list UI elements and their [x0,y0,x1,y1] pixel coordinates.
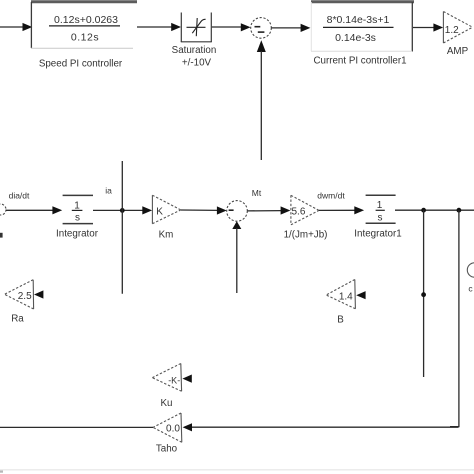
gain AMP 1.2 [443,12,472,44]
wire Taho output to left edge [0,426,153,428]
svg-text:0.12s: 0.12s [71,32,99,44]
wire input to Speed PI controller [0,26,23,28]
svg-text:dwm/dt: dwm/dt [317,191,345,201]
node junction wm 1 [421,208,426,213]
scope (partial, right edge) [467,263,474,294]
svg-text:Taho: Taho [156,444,178,455]
svg-text:s: s [378,212,383,223]
block Integrator1 1/s [366,195,396,223]
sum junction S1 [251,18,272,39]
wire vertical feedback to Taho [450,210,459,426]
wire Km to sum S2 [181,209,218,211]
sum junction S2 [227,201,248,222]
gain Ku -K- [152,364,181,392]
svg-text:Saturation: Saturation [172,45,217,56]
figure caption rule (faint) [0,469,474,471]
gain 1/(Jm+Jb) 5.6 [291,195,319,225]
svg-text:5.6: 5.6 [292,207,306,218]
gain Ra 2.5 [5,280,34,309]
wire arrow into Ku [182,375,191,383]
sum junction (partial, left edge) [0,204,6,215]
svg-text:1.2: 1.2 [445,25,459,36]
wire Integrator to Km [93,209,144,211]
svg-text:8*0.14e-3s+1: 8*0.14e-3s+1 [327,14,390,26]
gain Taho 0.0 [153,413,182,442]
gain B 1.4 [326,280,355,309]
wire S1 to Current PI controller1 [271,27,301,29]
svg-text:Ku: Ku [161,398,173,409]
cut label fragment at left edge [0,233,3,238]
svg-text:B: B [337,315,344,326]
block Speed PI controller [31,2,137,49]
node junction ia [120,208,125,213]
svg-text:0.14e-3s: 0.14e-3s [335,32,376,44]
svg-text:Integrator: Integrator [56,229,99,240]
svg-text:Current PI controller1: Current PI controller1 [313,56,406,67]
node junction on B feedback [421,292,426,297]
svg-text:1: 1 [74,200,80,211]
svg-text:AMP: AMP [447,46,469,57]
wire Current PI to AMP [413,27,435,29]
wire S2 to gain 5.6 [247,210,281,212]
svg-text:Speed PI controller: Speed PI controller [39,59,123,70]
speck bottom-left [0,471,3,473]
block Saturation [181,13,212,43]
svg-text:-K-: -K- [168,375,180,385]
svg-text:+/-10V: +/-10V [182,58,212,69]
wire Integrator1 output to right edge [395,209,474,211]
wire Speed PI to Saturation [137,26,172,28]
svg-text:K: K [156,207,163,218]
wire arrow into B [356,291,365,299]
wire 5.6 to Integrator1 [319,209,356,211]
wire vertical from ia node [121,161,123,294]
wire arrow into Ra [34,290,43,298]
node junction wm 2 [457,208,462,213]
svg-text:Ra: Ra [11,314,24,325]
wire to Integrator [6,209,54,211]
svg-text:1/(Jm+Jb): 1/(Jm+Jb) [284,229,328,240]
wire feedback arrow into S1 bottom [257,40,266,160]
svg-text:Mt: Mt [252,188,262,198]
svg-text:Km: Km [159,229,174,240]
wire Saturation to sum S1 [212,26,242,28]
svg-text:0.12s+0.0263: 0.12s+0.0263 [54,14,118,26]
svg-text:1.4: 1.4 [339,291,353,302]
svg-text:s: s [75,213,80,224]
wire vertical feedback to B / Ku [423,210,425,377]
svg-text:0.0: 0.0 [166,424,180,435]
svg-text:Integrator1: Integrator1 [354,229,401,240]
wire feedback arrow into S2 bottom [232,221,241,293]
svg-text:ia: ia [105,186,112,196]
wire feedback into Taho from right [192,426,459,428]
gain Km K [152,195,180,224]
svg-text:c: c [468,284,473,294]
svg-text:dia/dt: dia/dt [9,191,30,201]
svg-text:1: 1 [377,200,383,211]
svg-text:2.5: 2.5 [18,291,32,302]
block Current PI controller1 [311,2,414,52]
block Integrator 1/s [63,195,93,223]
